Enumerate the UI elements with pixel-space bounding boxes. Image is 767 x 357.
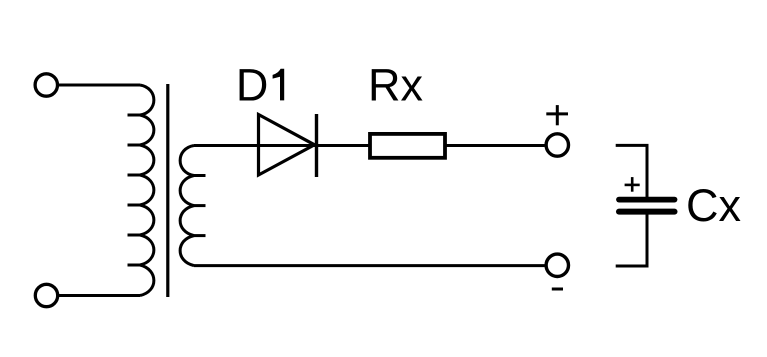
minus sign output xyxy=(552,288,563,291)
svg-text:D: D xyxy=(236,60,269,111)
capacitor top lead xyxy=(616,145,647,197)
wire secondary bottom to - terminal xyxy=(194,264,545,267)
terminal T4 (- output) xyxy=(546,254,568,276)
plus sign output xyxy=(546,105,568,125)
transformer secondary winding xyxy=(180,146,205,266)
svg-text:Cx: Cx xyxy=(686,180,741,231)
svg-text:Rx: Rx xyxy=(368,60,423,111)
wire primary top xyxy=(59,84,140,87)
capacitor Cx bottom plate xyxy=(619,209,675,215)
diode D1 triangle xyxy=(259,115,315,176)
terminal T2 (primary bottom) xyxy=(35,284,57,306)
capacitor Cx top plate xyxy=(619,197,675,203)
capacitor polarity plus xyxy=(625,177,640,192)
diode D1 cathode bar xyxy=(315,114,318,177)
wire primary bottom xyxy=(59,294,140,297)
transformer core xyxy=(166,84,169,297)
wire secondary top to + terminal xyxy=(194,144,545,147)
terminal T3 (+ output) xyxy=(546,134,568,156)
transformer primary winding xyxy=(128,85,154,296)
terminal T1 (primary top) xyxy=(35,74,57,96)
capacitor bottom lead xyxy=(616,215,647,267)
resistor Rx body xyxy=(370,134,445,158)
